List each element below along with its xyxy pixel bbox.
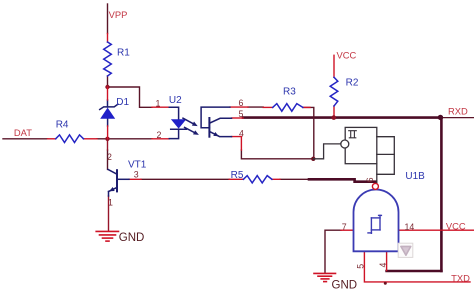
svg-text:DAT: DAT bbox=[14, 127, 32, 138]
svg-text:VCC: VCC bbox=[446, 220, 466, 231]
svg-text:U1B: U1B bbox=[405, 171, 425, 182]
svg-text:4: 4 bbox=[239, 128, 244, 138]
svg-text:3: 3 bbox=[134, 169, 139, 179]
svg-text:R4: R4 bbox=[56, 119, 69, 130]
svg-text:D1: D1 bbox=[116, 97, 129, 108]
svg-text:7: 7 bbox=[342, 222, 347, 232]
svg-text:R5: R5 bbox=[231, 170, 244, 181]
svg-text:6: 6 bbox=[239, 98, 244, 108]
svg-text:5: 5 bbox=[239, 109, 244, 119]
svg-text:2: 2 bbox=[107, 152, 112, 162]
svg-text:VPP: VPP bbox=[109, 9, 128, 20]
svg-text:GND: GND bbox=[119, 232, 145, 244]
svg-text:RXD: RXD bbox=[448, 105, 468, 116]
svg-text:R1: R1 bbox=[117, 47, 130, 58]
svg-text:TXD: TXD bbox=[451, 272, 470, 283]
svg-text:U2: U2 bbox=[169, 95, 182, 106]
svg-text:5: 5 bbox=[355, 264, 365, 269]
svg-text:GND: GND bbox=[332, 280, 358, 292]
svg-text:VCC: VCC bbox=[337, 50, 357, 61]
svg-text:R3: R3 bbox=[283, 87, 296, 98]
svg-text:2: 2 bbox=[157, 130, 162, 140]
svg-text:6: 6 bbox=[365, 177, 375, 182]
svg-text:1: 1 bbox=[108, 197, 113, 207]
svg-text:14: 14 bbox=[405, 222, 415, 232]
svg-text:4: 4 bbox=[378, 263, 388, 268]
svg-text:1: 1 bbox=[156, 99, 161, 109]
svg-text:R2: R2 bbox=[346, 78, 359, 89]
